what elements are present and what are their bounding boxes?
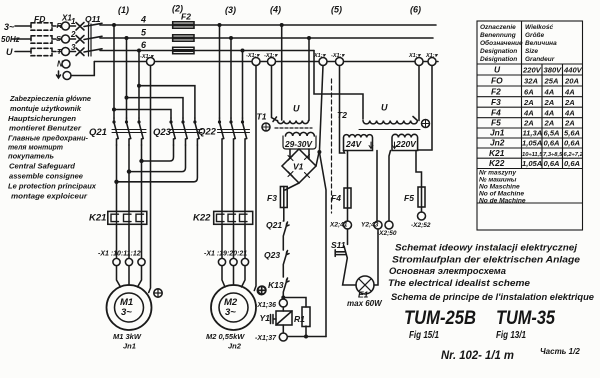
svg-text:2A: 2A (523, 119, 534, 128)
wire drop Q22 pole1 (219, 25, 221, 118)
svg-text:29-30V: 29-30V (284, 140, 313, 149)
contactor Q21 linkage (112, 130, 146, 133)
fuse F4 (344, 188, 351, 208)
svg-text:380V: 380V (544, 66, 563, 75)
svg-text:U: U (293, 104, 300, 114)
junction R1 bottom (304, 335, 308, 339)
wire V1 to F3 (285, 183, 299, 190)
svg-text:0,6A: 0,6A (564, 139, 580, 148)
terminal X1:2 (62, 35, 70, 43)
wire 220V right to F5 (416, 151, 422, 188)
svg-text:Q21: Q21 (89, 127, 107, 138)
junction Q23 feed 3 (137, 84, 141, 88)
wire drop Q22 pole2 (230, 38, 232, 118)
wire bus6 to T2 left (314, 51, 363, 120)
wire 24V left to F4 (347, 151, 349, 189)
ground M2 (257, 286, 265, 294)
svg-text:The electrical idealist schem: The electrical idealist scheme (388, 278, 530, 288)
svg-text:№ машины: № машины (479, 177, 517, 184)
svg-text:Designation: Designation (480, 48, 517, 55)
svg-text:2A: 2A (544, 119, 555, 128)
wire drop Q21 pole2 (126, 38, 128, 118)
T1 separator (275, 127, 312, 129)
junction bus4/Q22 (218, 23, 222, 27)
wire Q21 out2 to K21 (128, 145, 130, 211)
contactor Q23 pole1 (171, 118, 175, 145)
wire 24V right to E1 riser (376, 151, 378, 222)
terminal X1:11 (125, 258, 132, 265)
contactor Q22 linkage (218, 130, 250, 133)
svg-text:Величина: Величина (525, 40, 557, 47)
svg-text:2A: 2A (544, 98, 555, 107)
T1 secondary winding (286, 132, 315, 136)
svg-text:11,3A: 11,3A (523, 129, 543, 138)
wire to T2 primary right (418, 66, 420, 121)
fuse F2c (173, 47, 194, 53)
svg-text:Y1: Y1 (260, 313, 271, 323)
wire E1 to riser (374, 229, 378, 285)
svg-text:Le protection principaux: Le protection principaux (8, 182, 97, 191)
T1 core ground (262, 123, 270, 131)
terminal X1:10 (113, 258, 120, 265)
fuse F3 (280, 187, 287, 208)
svg-text:U: U (6, 47, 13, 57)
reverser swap wire 1-3 (117, 145, 198, 182)
svg-text:0,6A: 0,6A (564, 159, 580, 168)
DC return riser (319, 152, 326, 337)
PE drop to M1 (149, 66, 151, 293)
junction Q23 feed 1 (112, 108, 116, 112)
svg-text:6,5A: 6,5A (544, 129, 560, 138)
svg-text:K22: K22 (489, 158, 505, 168)
svg-text:Oznaczenie: Oznaczenie (480, 24, 516, 31)
T2 secondary 220V (392, 134, 418, 150)
svg-text:220V: 220V (395, 139, 417, 149)
svg-text:6A: 6A (524, 87, 534, 96)
fuse FD phase T (dashed) (31, 48, 52, 55)
wire drop Q21 pole3 (138, 51, 140, 119)
wire input S (12, 38, 31, 40)
svg-text:F5: F5 (404, 193, 414, 203)
wire col6b down (418, 66, 432, 151)
wire to Y1/R1 (282, 307, 284, 311)
svg-text:Q11: Q11 (85, 14, 101, 24)
svg-text:32A: 32A (524, 77, 538, 86)
svg-text:Обозначение: Обозначение (480, 39, 523, 47)
switch Q11 pole 2 (70, 36, 103, 44)
T2 core ground (422, 120, 430, 128)
V1 diode marks (288, 155, 310, 178)
ground M1 (154, 289, 162, 297)
svg-text:Jn1: Jn1 (123, 342, 136, 351)
junction bus6/Q22 (241, 49, 245, 53)
svg-text:25A: 25A (544, 77, 559, 86)
junction col5b/T2 feed (337, 93, 339, 95)
svg-text:No Maschine: No Maschine (479, 184, 520, 191)
svg-text:Wielkość: Wielkość (525, 24, 554, 31)
wire drop Q21 pole1 (113, 25, 115, 118)
contactor Q22 pole3 (243, 118, 247, 213)
wire drop Q22 pole3 (242, 51, 244, 119)
fuse F5 (418, 187, 425, 207)
bottom rail to DC return (287, 336, 326, 338)
svg-text:(3): (3) (225, 5, 236, 15)
svg-text:0,6A: 0,6A (544, 159, 560, 168)
T2 separator (359, 129, 420, 131)
svg-text:2A: 2A (564, 98, 575, 107)
dashed screen line (331, 79, 333, 213)
svg-text:220V: 220V (522, 66, 542, 75)
terminal X1:1 (62, 22, 70, 30)
svg-text:440V: 440V (563, 66, 583, 75)
T1 primary winding (278, 121, 309, 124)
svg-text:(5): (5) (331, 5, 342, 15)
svg-text:FO: FO (491, 76, 503, 86)
svg-text:Fig 13/1: Fig 13/1 (496, 329, 526, 341)
svg-text:-X1 :10:11:12: -X1 :10:11:12 (98, 251, 141, 258)
svg-text:Основная электросхема: Основная электросхема (389, 266, 506, 276)
svg-text:4: 4 (140, 15, 146, 25)
svg-text:F4: F4 (331, 193, 341, 203)
svg-text:0,6A: 0,6A (544, 139, 560, 148)
svg-text:Benennung: Benennung (480, 32, 516, 39)
svg-text:Stromlaufplan der elektrische: Stromlaufplan der elektrischen Anlage (392, 255, 580, 265)
terminal X1:21 (241, 258, 248, 265)
ground mark near K13 (258, 286, 266, 294)
svg-text:S: S (56, 34, 61, 43)
svg-text:покупатель: покупатель (8, 152, 54, 161)
PE rail (94, 61, 438, 63)
wire terminals to M1 (117, 266, 142, 287)
svg-text:(1): (1) (118, 5, 129, 15)
svg-text:Часть 1/2: Часть 1/2 (540, 347, 580, 356)
svg-text:(6): (6) (410, 5, 421, 15)
svg-text:4A: 4A (544, 108, 555, 117)
terminal X1:3 (62, 48, 70, 56)
lamp E1 (356, 276, 374, 294)
wire F3 to Q21 aux (282, 208, 285, 222)
svg-text:F4: F4 (491, 107, 501, 117)
ground symbol at input (57, 71, 61, 78)
T2 primary winding (363, 117, 417, 124)
fuse F2a (173, 22, 194, 28)
contactor Q23 linkage (169, 130, 202, 133)
overload relay K22 (214, 211, 253, 224)
svg-text:R1: R1 (294, 314, 305, 324)
junction bus4/T1 (280, 23, 284, 27)
svg-text:Größe: Größe (525, 32, 545, 39)
terminal X1:12 (138, 258, 145, 265)
svg-text:Y2;43: Y2;43 (361, 222, 379, 229)
svg-text:3: 3 (71, 43, 76, 52)
svg-text:Главные предохрани-: Главные предохрани- (8, 134, 88, 143)
svg-text:-X2;50: -X2;50 (377, 230, 397, 237)
svg-text:F5: F5 (491, 118, 501, 128)
svg-text:K21: K21 (89, 213, 106, 224)
T2 secondary 24V (344, 135, 373, 151)
svg-text:K22: K22 (193, 213, 211, 224)
svg-text:Q21: Q21 (266, 220, 282, 230)
svg-text:-X1;37: -X1;37 (255, 335, 277, 342)
svg-text:24V: 24V (345, 139, 362, 149)
svg-text:1: 1 (71, 17, 76, 26)
svg-text:Q22: Q22 (198, 127, 217, 138)
svg-text:3~: 3~ (4, 22, 15, 32)
wire feed Q23 pole3 (139, 86, 195, 118)
svg-text:T2: T2 (337, 110, 347, 120)
svg-text:-X1;36: -X1;36 (255, 302, 276, 309)
wire PE to rail (71, 62, 94, 76)
wire feed Q23 pole1 (114, 110, 171, 119)
junction bus5/Q22 (229, 36, 233, 40)
svg-text:Nr maszyny: Nr maszyny (479, 170, 516, 177)
fuse FD phase S (dashed) (31, 36, 52, 43)
svg-text:1,05A: 1,05A (522, 159, 542, 168)
junction bus6/Q21 (137, 49, 141, 53)
fuse FD phase R (dashed) (31, 23, 52, 30)
reverser swap wire 2-2 (129, 145, 186, 172)
svg-text:Zabezpieczenia główne: Zabezpieczenia główne (9, 94, 92, 103)
label 29-30V (283, 136, 316, 149)
svg-text:F3: F3 (491, 97, 501, 107)
contactor Q23 pole2 (183, 118, 187, 145)
wire terminals to M2 (222, 266, 245, 287)
svg-text:Jn2: Jn2 (490, 138, 505, 148)
contactor Q22 pole2 (231, 118, 235, 211)
svg-text:K13: K13 (268, 280, 284, 290)
contactor Q21 pole1 (114, 118, 118, 145)
terminal PE (63, 72, 71, 80)
terminal -X2;50 (385, 221, 393, 229)
junction bus4/Q21 (112, 23, 116, 27)
wire K22 to terminals (222, 224, 245, 258)
wire Y1 to X1;37 (282, 325, 284, 333)
svg-text:Central Safeguard: Central Safeguard (9, 162, 75, 171)
svg-text:T1: T1 (257, 112, 267, 122)
svg-text:3~: 3~ (121, 307, 132, 318)
wire secondary to V1 (290, 149, 309, 159)
svg-text:Hauptsicherungen: Hauptsicherungen (8, 114, 76, 123)
svg-text:4A: 4A (523, 108, 534, 117)
svg-text:F3: F3 (267, 193, 277, 203)
junction bus5/Q21 (125, 36, 129, 40)
bus line 4 (100, 24, 436, 26)
RATING TABLE (477, 21, 583, 230)
svg-text:max 60W: max 60W (347, 299, 383, 308)
terminal X1:19 (218, 258, 225, 265)
contactor Q23 pole3 (195, 118, 199, 145)
wire feed Q23 pole2 (127, 98, 184, 118)
svg-text:4A: 4A (544, 87, 555, 96)
junction DC riser (317, 150, 321, 154)
motor M1 (107, 285, 152, 330)
24V ground arrow (369, 142, 373, 149)
terminal -X2;52 (418, 212, 426, 220)
svg-text:V1: V1 (293, 162, 304, 172)
svg-text:2A: 2A (564, 119, 575, 128)
svg-text:TUM-35: TUM-35 (496, 307, 556, 329)
switch Q11 pole 1 (70, 23, 103, 31)
wire col5b down to F4 feed (340, 66, 345, 154)
svg-text:Fig 15/1: Fig 15/1 (409, 329, 439, 341)
wire Q21 out3 to K21 (141, 145, 143, 211)
terminal X1:20 (230, 258, 237, 265)
wire F4 to X2;41 (347, 208, 349, 221)
wire Q21 out1 to K21 (116, 145, 118, 211)
svg-text:2: 2 (70, 30, 76, 39)
svg-text:montieret Benutzer: montieret Benutzer (9, 124, 82, 133)
svg-text:S11: S11 (331, 240, 346, 250)
svg-text:montage exploiceur: montage exploiceur (11, 192, 88, 201)
svg-text:K21: K21 (489, 148, 505, 158)
svg-text:assemble consignee: assemble consignee (9, 172, 84, 181)
wire to T1 primary kink (272, 66, 278, 122)
svg-text:Q23: Q23 (264, 250, 280, 260)
wire input T (15, 51, 31, 53)
220V ground arrow (393, 142, 397, 149)
svg-text:-X1 :19:20:21: -X1 :19:20:21 (204, 251, 247, 258)
rectifier V1 (282, 149, 316, 183)
left note text block (8, 94, 97, 201)
reverser swap wire 3-1 (142, 145, 174, 161)
wire 220V left down (389, 151, 391, 222)
wire R1 to bottom rail (305, 326, 307, 337)
svg-text:M1 3kW: M1 3kW (113, 332, 142, 341)
bottom right note text block (388, 243, 594, 302)
table column lines (522, 64, 563, 169)
svg-text:20A: 20A (564, 77, 579, 86)
svg-text:4A: 4A (564, 108, 575, 117)
wire branch to R1 (283, 298, 306, 308)
contactor Q22 pole1 (220, 118, 224, 213)
contactor Q21 pole3 (139, 118, 143, 145)
svg-text:теля монтирт: теля монтирт (8, 143, 63, 152)
svg-text:6,2÷7,2: 6,2÷7,2 (564, 152, 584, 158)
svg-text:U: U (494, 65, 501, 75)
svg-text:(4): (4) (270, 5, 281, 15)
motor M2 (211, 285, 256, 330)
junction bus5/T1 (307, 36, 311, 40)
svg-text:7,3÷8,5: 7,3÷8,5 (543, 152, 563, 158)
svg-text:montuje użytkownik: montuje użytkownik (10, 104, 82, 113)
junction branch R1 (281, 296, 285, 300)
svg-text:Désignation: Désignation (480, 56, 517, 63)
wire bus5 to T1 primary right (308, 38, 310, 121)
svg-text:F2: F2 (491, 86, 501, 96)
wire V1 dc up (316, 66, 323, 167)
table row lines (477, 75, 583, 169)
svg-text:5,6A: 5,6A (564, 129, 580, 138)
wire bus4 to T1 primary left (281, 25, 283, 120)
table outer box (477, 21, 583, 230)
bus line 5 (100, 37, 433, 39)
svg-text:TUM-25B: TUM-25B (404, 307, 476, 329)
junction Q23 feed 2 (125, 96, 129, 100)
svg-text:Size: Size (525, 48, 538, 55)
wire K21 to terminals (117, 224, 142, 258)
svg-text:Nr. 102- 1/1 m: Nr. 102- 1/1 m (441, 350, 514, 362)
svg-text:(2): (2) (172, 4, 183, 14)
switch Q11 linkage (89, 24, 92, 56)
svg-text:U: U (381, 103, 388, 113)
svg-text:Grandeur: Grandeur (525, 56, 555, 63)
svg-text:4A: 4A (564, 87, 575, 96)
svg-text:M2 0,55kW: M2 0,55kW (206, 332, 245, 341)
svg-text:-X2;52: -X2;52 (411, 222, 431, 229)
contactor Q21 pole2 (127, 118, 131, 145)
svg-text:Jn2: Jn2 (228, 342, 242, 351)
svg-text:Schema de principe de l'instal: Schema de principe de l'instalation elek… (391, 292, 594, 302)
svg-text:2A: 2A (523, 98, 534, 107)
bus line 6 (100, 50, 314, 52)
svg-text:Jn1: Jn1 (490, 128, 505, 138)
switch Q11 pole 3 (70, 48, 103, 56)
svg-text:E1: E1 (358, 290, 369, 300)
wire input R (15, 25, 31, 27)
overload relay K21 (108, 211, 147, 224)
svg-text:10÷11,5: 10÷11,5 (522, 152, 543, 158)
svg-text:No de Machine: No de Machine (479, 197, 526, 204)
svg-text:3~: 3~ (225, 307, 236, 318)
svg-text:Schemat ideowy instalacji elek: Schemat ideowy instalacji elektrycznej (395, 243, 577, 253)
table header split (477, 21, 583, 64)
PE drop to M2 (254, 66, 256, 291)
svg-text:1,05A: 1,05A (522, 139, 542, 148)
table footer line (477, 202, 583, 204)
wire F5 to X2;52 (421, 207, 423, 212)
fuse F2b (173, 35, 194, 41)
